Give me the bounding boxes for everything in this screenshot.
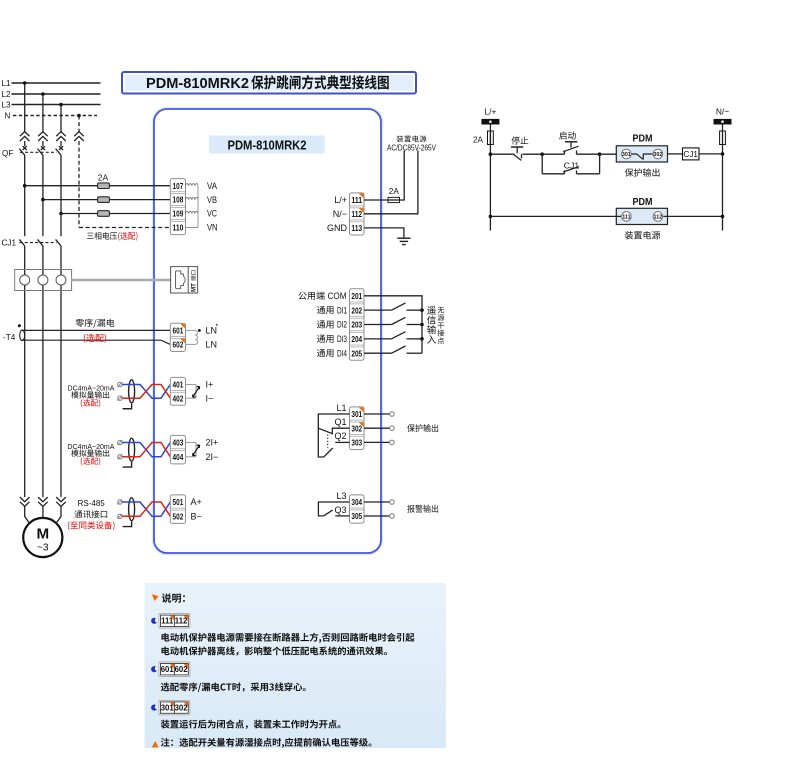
label zero-seq bbox=[76, 319, 115, 328]
wire LN bottom bbox=[186, 343, 196, 345]
label zero-seq option bbox=[84, 334, 106, 343]
label dry contact 4 bbox=[438, 337, 445, 344]
rs485 wire+ bbox=[122, 502, 170, 516]
svg-text:CJ1: CJ1 bbox=[2, 239, 17, 248]
svg-text:107: 107 bbox=[173, 181, 184, 191]
pin 302 bbox=[653, 149, 663, 159]
voltage input terminal block bbox=[170, 179, 185, 235]
svg-text:GND: GND bbox=[327, 223, 348, 233]
wire feeder A top bbox=[24, 83, 26, 132]
motor feeder chevrons 1 bbox=[20, 497, 30, 502]
MT port jack icon bbox=[175, 271, 185, 289]
fuse L inner bbox=[489, 131, 491, 145]
wire branch b bbox=[577, 173, 600, 175]
svg-text:CJ1: CJ1 bbox=[683, 150, 698, 159]
note warn text bbox=[161, 738, 372, 748]
PDM box 1 bbox=[616, 146, 667, 162]
protection out terminal block bbox=[350, 407, 365, 450]
label three-phase voltage bbox=[87, 232, 117, 240]
breaker QF neutral chevrons bbox=[74, 132, 84, 137]
notes panel bbox=[145, 583, 447, 748]
power terminal 113 bbox=[350, 219, 364, 221]
svg-text:112: 112 bbox=[351, 209, 362, 219]
wire to CJ1 coil bbox=[668, 153, 683, 155]
zero-seq terminal 602 bbox=[171, 335, 185, 337]
analog2 drain wire bbox=[123, 462, 132, 467]
terminal bar N/- bbox=[714, 119, 732, 125]
wire N bus bbox=[722, 125, 724, 231]
wire rung1 a bbox=[490, 153, 514, 155]
svg-text:401: 401 bbox=[173, 380, 184, 390]
switch DI1 bbox=[364, 309, 392, 311]
svg-text:205: 205 bbox=[351, 348, 362, 358]
svg-text:PDM: PDM bbox=[633, 133, 653, 144]
CT block bbox=[15, 270, 72, 291]
note ref 601 602 bbox=[159, 662, 190, 676]
label remote signal 3 bbox=[427, 335, 436, 344]
svg-text:2I+: 2I+ bbox=[206, 438, 219, 448]
label remote signal 0 bbox=[427, 306, 436, 315]
svg-text:L1: L1 bbox=[336, 403, 346, 413]
label dry contact 0 bbox=[438, 307, 445, 313]
contactor CJ1 pole 2 bbox=[38, 239, 43, 246]
label stop bbox=[512, 136, 529, 144]
relay L1 blade2 bbox=[324, 448, 333, 457]
wire alarm out bbox=[364, 515, 390, 517]
label device power ctrl bbox=[625, 231, 660, 239]
wire zero-seq bottom bbox=[22, 340, 171, 344]
label DI2 bbox=[317, 320, 334, 328]
label device power bbox=[397, 135, 427, 142]
power terminal 112 bbox=[350, 205, 364, 207]
analog1 drain wire bbox=[123, 404, 132, 409]
svg-text:DI4: DI4 bbox=[337, 348, 347, 358]
svg-text:113: 113 bbox=[351, 223, 362, 233]
relay L3 common bbox=[318, 502, 349, 516]
wire feeder N top bbox=[78, 116, 80, 132]
svg-text:201: 201 bbox=[351, 291, 362, 301]
wire branch right bbox=[599, 154, 601, 174]
coil CJ1 bbox=[683, 148, 700, 160]
switch DI4 bbox=[364, 352, 392, 354]
wire rung2 right bbox=[663, 215, 722, 217]
relay L1 link bbox=[327, 435, 329, 448]
svg-text:602: 602 bbox=[175, 665, 189, 674]
label protection output bbox=[407, 424, 438, 432]
rs485 terminal 502 bbox=[171, 507, 185, 509]
analog2 terminal block bbox=[170, 435, 185, 464]
notes marker bbox=[152, 594, 159, 601]
wire rung2 left bbox=[490, 215, 621, 217]
protection out terminal 301 bbox=[359, 408, 364, 413]
voltage input terminal 108 bbox=[171, 191, 185, 193]
svg-text:VB: VB bbox=[207, 195, 217, 206]
rs485 wire- bbox=[122, 502, 170, 516]
svg-text:2I−: 2I− bbox=[206, 452, 219, 462]
label dry contact 2 bbox=[438, 322, 444, 328]
analog2 transducer bbox=[186, 442, 196, 444]
PT coil bbox=[186, 184, 198, 186]
fuse bbox=[98, 197, 110, 203]
voltage input terminal 110 bbox=[171, 219, 185, 221]
rs485 terminal block bbox=[170, 495, 185, 524]
svg-text:Q1: Q1 bbox=[334, 417, 346, 427]
svg-text:111: 111 bbox=[351, 195, 362, 205]
svg-text:L/+: L/+ bbox=[334, 195, 347, 205]
CT secondary coil bbox=[196, 330, 198, 344]
label COM bbox=[298, 291, 324, 299]
motor feeder chevrons 3 bbox=[56, 497, 66, 502]
svg-text:302: 302 bbox=[653, 152, 662, 158]
pin 301 bbox=[622, 149, 632, 159]
svg-text:502: 502 bbox=[173, 511, 184, 521]
label dry contact 3 bbox=[438, 330, 445, 337]
device box PDM-810MRK2 bbox=[154, 109, 381, 553]
label dry contact 1 bbox=[438, 314, 445, 321]
svg-text:CJ1: CJ1 bbox=[564, 160, 580, 170]
svg-text:L1: L1 bbox=[2, 79, 11, 88]
note text 2 bbox=[161, 682, 306, 692]
motor feeder chevrons 2 bbox=[38, 497, 48, 502]
svg-text:112: 112 bbox=[654, 214, 663, 220]
wire L bus bbox=[489, 125, 491, 231]
wire Q3 bbox=[335, 515, 349, 517]
motor M bbox=[23, 518, 62, 557]
fuse L bbox=[488, 131, 494, 145]
svg-text:305: 305 bbox=[351, 511, 362, 521]
svg-text:*: * bbox=[216, 324, 219, 331]
breaker QF pole 3 bbox=[56, 132, 66, 137]
PT coil bbox=[186, 211, 198, 213]
digital input terminal 204 bbox=[350, 330, 364, 332]
note text 1a bbox=[162, 633, 415, 643]
analog2 shield bbox=[129, 438, 135, 461]
CT T4 core bbox=[20, 330, 25, 340]
svg-text:301: 301 bbox=[161, 704, 175, 713]
wire voltage tap bbox=[41, 198, 45, 202]
svg-text:DI3: DI3 bbox=[337, 334, 347, 344]
rs485 drain wire bbox=[123, 521, 132, 526]
relay L1 common bbox=[318, 414, 349, 457]
junction bbox=[540, 152, 544, 156]
contactor CJ1 linkage bbox=[20, 242, 57, 244]
svg-text:L3: L3 bbox=[2, 100, 11, 109]
power terminal 111 bbox=[359, 194, 364, 199]
wire Q2 bbox=[335, 441, 349, 443]
pin 112 bbox=[653, 212, 663, 222]
svg-text:N/−: N/− bbox=[333, 209, 347, 219]
svg-text:602: 602 bbox=[173, 340, 184, 350]
stop button bbox=[514, 154, 522, 160]
contactor CJ1 pole 3 bbox=[56, 239, 61, 246]
wire COM bbox=[364, 296, 422, 353]
contact 301-302 bbox=[631, 154, 653, 160]
svg-text:B−: B− bbox=[191, 512, 202, 522]
note bullet 2 bbox=[151, 666, 157, 672]
wire relay out bbox=[364, 441, 390, 443]
wire 112 bbox=[364, 151, 418, 214]
wire neutral drop bbox=[78, 141, 80, 228]
svg-text:601: 601 bbox=[161, 665, 175, 674]
voltage input terminal 109 bbox=[171, 205, 185, 207]
svg-text:302: 302 bbox=[175, 704, 189, 713]
device outline halo bbox=[154, 109, 381, 553]
svg-text:LN: LN bbox=[206, 340, 218, 350]
svg-text:301: 301 bbox=[622, 152, 631, 158]
wire 111 bbox=[364, 199, 388, 201]
junction bbox=[598, 152, 602, 156]
wire voltage tap bbox=[23, 184, 27, 188]
svg-text:501: 501 bbox=[173, 497, 184, 507]
svg-text:L2: L2 bbox=[2, 90, 11, 99]
rs485 shield bbox=[129, 498, 135, 521]
wire 113 ground bbox=[364, 228, 404, 238]
svg-text:COM: COM bbox=[328, 291, 347, 301]
breaker QF pole 2 bbox=[38, 132, 48, 137]
svg-text:112: 112 bbox=[175, 617, 188, 626]
analog1 wire- bbox=[122, 385, 170, 399]
terminal bar L/+ bbox=[481, 119, 499, 125]
svg-text:QF: QF bbox=[2, 149, 13, 158]
svg-text:404: 404 bbox=[173, 452, 184, 462]
PT coil bbox=[186, 197, 198, 199]
digital input terminal 205 bbox=[350, 344, 364, 346]
wire Q1 jog bbox=[318, 428, 349, 434]
wire 111 up bbox=[400, 151, 405, 201]
wire feeder C top bbox=[60, 105, 62, 132]
wire rung1 b bbox=[523, 153, 543, 155]
label DI3 bbox=[317, 335, 334, 343]
rs485 terminal circles bbox=[118, 500, 122, 504]
fuse bbox=[98, 211, 110, 217]
wire motor C bbox=[56, 507, 61, 524]
wire alarm out bbox=[364, 501, 390, 503]
wire LN top bbox=[186, 329, 196, 331]
svg-text:PDM-810MRK2: PDM-810MRK2 bbox=[146, 75, 249, 92]
analog2 terminal circles bbox=[118, 440, 122, 444]
wire rung1 e bbox=[600, 153, 617, 155]
contactor CJ1 pole 1 bbox=[19, 239, 24, 246]
svg-text:N/−: N/− bbox=[716, 106, 729, 116]
svg-text:303: 303 bbox=[351, 438, 362, 448]
note bullet 1 bbox=[151, 618, 157, 624]
svg-text:VC: VC bbox=[207, 209, 217, 220]
svg-text:-T4: -T4 bbox=[3, 333, 16, 342]
wire rung1 d bbox=[577, 153, 600, 155]
svg-text:N: N bbox=[5, 111, 11, 120]
svg-text:601: 601 bbox=[173, 326, 184, 336]
svg-text:I−: I− bbox=[206, 393, 214, 403]
svg-text:AC/DC85V-265V: AC/DC85V-265V bbox=[387, 143, 437, 152]
analog1 transducer bbox=[186, 384, 196, 386]
title box bbox=[122, 72, 416, 94]
svg-text:DI2: DI2 bbox=[337, 320, 347, 330]
svg-text:RS-485: RS-485 bbox=[78, 499, 106, 508]
note bullet 3 bbox=[151, 705, 157, 711]
digital input terminal 202 bbox=[350, 301, 364, 303]
svg-text:L/+: L/+ bbox=[484, 106, 496, 116]
breaker QF linkage bbox=[20, 151, 57, 153]
wire VN dashed bbox=[79, 227, 170, 229]
svg-text:2A: 2A bbox=[98, 173, 109, 183]
note text 3 bbox=[161, 720, 341, 729]
device label box bbox=[209, 136, 325, 154]
label start bbox=[559, 131, 576, 139]
svg-text:202: 202 bbox=[351, 305, 362, 315]
alarm out terminal 305 bbox=[350, 507, 364, 509]
protection out terminal 303 bbox=[350, 433, 364, 435]
svg-text:111: 111 bbox=[161, 617, 174, 626]
label DI4 bbox=[317, 349, 334, 357]
svg-text:DI1: DI1 bbox=[337, 305, 347, 315]
fuse bbox=[98, 183, 110, 189]
node LN polarity bbox=[198, 329, 201, 332]
relay L3 blade bbox=[324, 510, 333, 516]
CT T4 polarity dot bbox=[18, 324, 21, 327]
PDM box 2 bbox=[616, 208, 667, 224]
svg-text:Q3: Q3 bbox=[334, 505, 346, 515]
fuse 2A power bbox=[388, 197, 400, 202]
power terminal block bbox=[350, 193, 365, 235]
svg-text:M: M bbox=[36, 525, 49, 542]
analog2 terminal 404 bbox=[171, 448, 185, 450]
CT A bbox=[20, 275, 30, 285]
label remote signal 1 bbox=[427, 316, 436, 325]
svg-text:2A: 2A bbox=[389, 187, 400, 196]
wire relay out bbox=[364, 413, 390, 415]
svg-text:402: 402 bbox=[173, 393, 184, 403]
fuse N bbox=[720, 131, 726, 145]
wire branch a bbox=[542, 173, 564, 175]
note ref 111 112 bbox=[159, 614, 190, 628]
svg-text:110: 110 bbox=[173, 223, 184, 233]
junction dots DI bbox=[420, 308, 424, 312]
analog1 wire+ bbox=[122, 385, 170, 399]
label remote signal 2 bbox=[427, 325, 436, 334]
zero-seq terminal 601 bbox=[180, 324, 185, 329]
protection out terminal 302 bbox=[350, 419, 364, 421]
MT port label bbox=[191, 271, 198, 292]
wire zero-seq top bbox=[22, 329, 171, 331]
contact CJ1 aux bbox=[564, 170, 566, 173]
svg-text:Q2: Q2 bbox=[334, 431, 346, 441]
svg-text:109: 109 bbox=[173, 209, 184, 219]
svg-text:L3: L3 bbox=[336, 491, 346, 501]
notes heading bbox=[162, 593, 185, 602]
wire motor B bbox=[42, 507, 44, 519]
label DI1 bbox=[317, 306, 334, 314]
svg-text:~3: ~3 bbox=[37, 542, 49, 553]
label alarm output bbox=[407, 505, 438, 513]
wire feeder B top bbox=[42, 94, 44, 132]
svg-text:2A: 2A bbox=[473, 135, 484, 144]
svg-text:301: 301 bbox=[351, 409, 362, 419]
note warn marker bbox=[152, 741, 159, 747]
wire branch left bbox=[541, 154, 543, 174]
analog1 terminal block bbox=[170, 377, 185, 405]
analog2 wire+ bbox=[122, 443, 170, 457]
svg-text:204: 204 bbox=[351, 334, 362, 344]
svg-text:203: 203 bbox=[351, 320, 362, 330]
svg-text:I+: I+ bbox=[206, 380, 214, 390]
wire coil to N bbox=[699, 153, 723, 155]
CT B bbox=[38, 275, 48, 285]
pin 111 bbox=[622, 212, 632, 222]
wire rung1 c bbox=[542, 153, 564, 155]
MT port box bbox=[171, 267, 198, 293]
coil bracket bbox=[197, 186, 199, 228]
wire motor A bbox=[25, 507, 30, 524]
svg-text:A+: A+ bbox=[191, 497, 202, 507]
svg-text:PDM-810MRK2: PDM-810MRK2 bbox=[228, 138, 307, 153]
ground symbol bbox=[397, 237, 410, 239]
digital input terminal block bbox=[350, 289, 365, 361]
svg-text:MT: MT bbox=[191, 283, 197, 292]
analog1 terminal circles bbox=[118, 382, 122, 386]
analog1 terminal 402 bbox=[171, 389, 185, 391]
start button bbox=[564, 151, 566, 155]
alarm out terminal block bbox=[350, 495, 365, 523]
svg-text:108: 108 bbox=[173, 195, 184, 205]
svg-text:111: 111 bbox=[622, 214, 630, 220]
svg-text:302: 302 bbox=[351, 423, 362, 433]
switch DI2 bbox=[364, 324, 392, 326]
CT C bbox=[56, 275, 66, 285]
zero-seq terminal block bbox=[170, 323, 185, 351]
wire CT cable bbox=[72, 279, 171, 282]
label protection out ctrl bbox=[625, 168, 660, 176]
digital input terminal 203 bbox=[350, 315, 364, 317]
note text 1b bbox=[162, 646, 387, 655]
analog2 wire- bbox=[122, 443, 170, 457]
wire relay out bbox=[364, 427, 390, 429]
wire voltage tap bbox=[59, 212, 63, 216]
switch DI3 bbox=[364, 338, 392, 340]
svg-text:304: 304 bbox=[351, 497, 362, 507]
analog1 shield bbox=[129, 380, 135, 403]
svg-text:VN: VN bbox=[207, 223, 218, 234]
breaker QF pole 1 bbox=[20, 132, 30, 137]
svg-text:403: 403 bbox=[173, 438, 184, 448]
svg-text:VA: VA bbox=[207, 181, 218, 192]
note ref 301 302 bbox=[159, 700, 190, 714]
svg-text:PDM: PDM bbox=[633, 197, 653, 208]
